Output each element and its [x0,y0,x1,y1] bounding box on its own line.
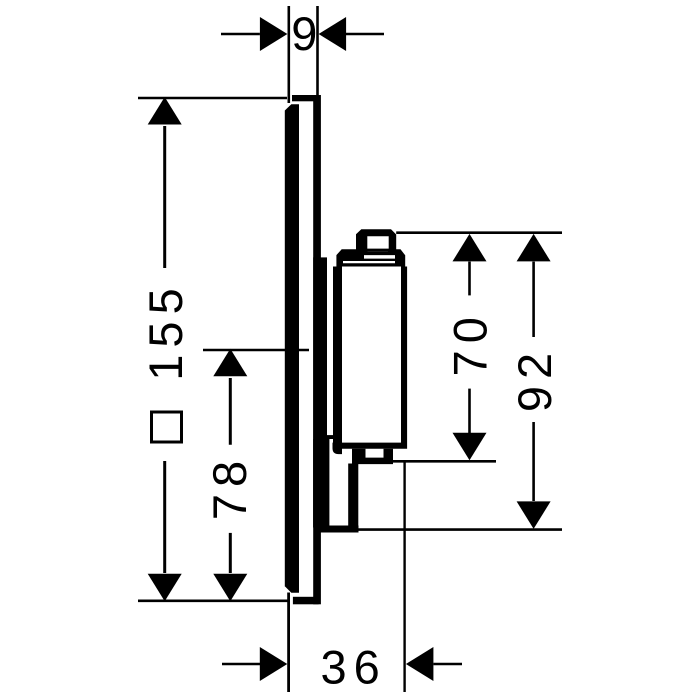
svg-text:155: 155 [139,281,192,380]
svg-text:70: 70 [443,310,496,376]
svg-text:9: 9 [291,7,317,60]
svg-text:36: 36 [321,641,387,694]
svg-text:78: 78 [203,454,256,520]
svg-text:92: 92 [508,346,561,412]
